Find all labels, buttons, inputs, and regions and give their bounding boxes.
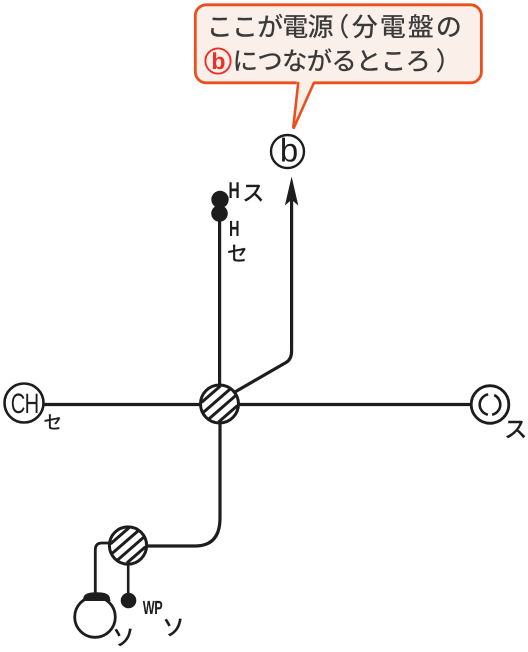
lamp globe [75, 597, 116, 638]
heater outlet dots [211, 191, 228, 208]
label H (top) [230, 182, 239, 198]
label so (lamp) [115, 629, 132, 647]
wire: horizontal main line [43, 403, 471, 406]
label H (lower) [230, 221, 239, 236]
bubble text line 1b [352, 14, 459, 38]
arrowhead to source b [285, 177, 298, 206]
WP outlet dot [121, 593, 137, 609]
wire: second box to lamp [95, 543, 110, 594]
lamp holder cap [83, 592, 111, 601]
red circled b in bubble [205, 48, 230, 73]
label se (CH) [44, 414, 60, 429]
wire: vertical from heater dots to junction [218, 200, 221, 404]
label so (WP) [165, 619, 182, 637]
outlet symbol right [471, 386, 509, 424]
bubble text line 2 [236, 48, 428, 71]
label WP [143, 601, 162, 614]
label su (right) [506, 421, 525, 439]
node b (source) [271, 135, 304, 168]
switch CH [5, 384, 44, 423]
wire: second box to WP outlet [127, 564, 130, 594]
wire: power feed curve [234, 199, 292, 393]
label su (top) [244, 185, 262, 202]
bubble text line 1a [211, 14, 333, 38]
bubble text line 1 paren [341, 14, 348, 39]
junction box (second) [109, 527, 146, 564]
speech bubble tail [294, 80, 315, 128]
junction box (main) [201, 385, 239, 423]
bubble text line 2 paren [437, 48, 444, 72]
speech bubble box [195, 5, 481, 83]
label se (below H) [228, 245, 246, 262]
wire: junction down to second box [148, 404, 220, 546]
